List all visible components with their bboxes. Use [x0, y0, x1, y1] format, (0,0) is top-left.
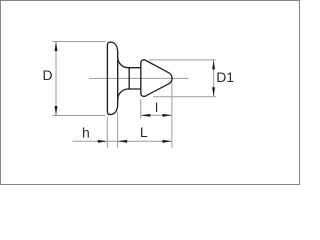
neck left edge line — [128, 68, 130, 89]
extension line D1 top — [149, 59, 216, 61]
dimension line l — [141, 114, 172, 116]
extension line disc left vertical — [106, 117, 108, 147]
arrowhead L right — [162, 140, 172, 143]
arrowhead h right-pointing — [98, 140, 108, 143]
arrowhead l left — [141, 114, 151, 117]
svg-text:L: L — [140, 124, 148, 140]
cone outline — [141, 60, 172, 97]
centerline — [89, 77, 189, 79]
dimension line D — [55, 42, 57, 116]
fillet disc to neck bottom — [118, 89, 129, 100]
arrowhead D1 down — [212, 87, 215, 97]
neck top edge — [128, 67, 141, 69]
arrowhead D down — [55, 106, 58, 116]
dimension line h and L — [73, 140, 172, 142]
arrowhead D1 up — [212, 60, 215, 70]
arrowhead L left-pointing — [118, 140, 128, 143]
extension line D top — [52, 41, 105, 43]
svg-text:h: h — [82, 124, 90, 140]
svg-text:D: D — [43, 67, 53, 83]
extension line disc right vertical — [117, 112, 119, 148]
extension line D1 bottom — [153, 96, 216, 98]
arrowhead l right — [162, 114, 172, 117]
svg-text:l: l — [155, 100, 158, 115]
svg-text:D1: D1 — [216, 69, 234, 85]
arrowhead D up — [55, 42, 58, 52]
fillet disc to neck top — [118, 57, 129, 67]
extension line D bottom — [52, 115, 105, 117]
extension line cone base vertical — [140, 99, 142, 118]
neck bottom edge — [128, 88, 141, 90]
disc silhouette — [107, 42, 117, 115]
extension line tip vertical — [171, 81, 173, 148]
dimension line D1 — [213, 60, 215, 97]
